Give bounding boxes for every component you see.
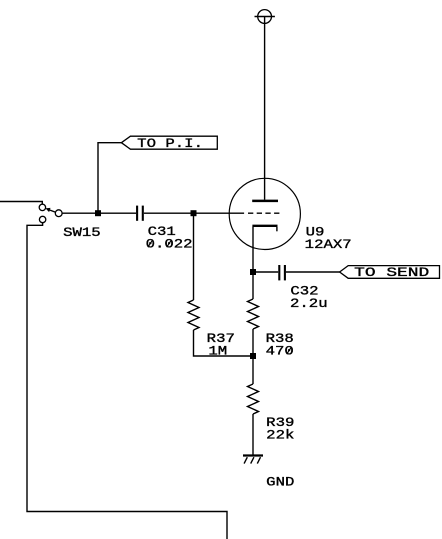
switch SW15 contact b (bottom) [39,216,45,222]
wire node A to C32 [253,271,278,273]
terminal (plate supply) crossbar [255,16,275,18]
wire terminal to tube plate [264,17,266,200]
svg-text:1M: 1M [208,344,227,359]
svg-text:2.2u: 2.2u [290,296,328,311]
capacitor C31 plate left [136,206,138,221]
junction J1 [95,210,101,216]
resistor R38 [248,299,259,329]
slashed zero of 0.022 (2nd) [167,240,172,247]
wire node J2 down to R37 [193,213,195,300]
wire cathode down to node A [252,227,254,272]
switch SW15 common pole c [55,210,62,217]
resistor R39 [248,384,259,414]
wire R37 to node J3 [194,330,254,356]
ground slash 3 [257,457,260,463]
resistor R37 [188,300,199,330]
wire switch contact b down-left-bottom rail [27,223,227,539]
capacitor C32 plate left [278,265,280,280]
ground bar [243,454,263,456]
junction J2 [191,210,197,216]
svg-text:22k: 22k [266,428,294,443]
wire switch pole to node J1 [62,212,98,214]
wire node J2 to tube grid [194,212,245,214]
capacitor C32 plate right [284,265,286,280]
svg-text:470: 470 [266,344,294,359]
switch SW15 blade arrowhead [45,208,50,212]
slashed zero of 470 [287,347,292,354]
triode U9 cathode hook [276,227,278,231]
switch SW15 blade [50,210,56,212]
svg-text:TO P.I.: TO P.I. [137,136,203,151]
junction J3 [250,353,256,359]
wire node J3 down to R39 [252,356,254,384]
terminal (plate supply) circle [258,10,272,24]
ground slash 2 [251,457,254,463]
svg-text:SW15: SW15 [63,225,101,240]
wire node J1 riser to TO P.I. tag [98,143,121,214]
slashed zero of 0.022 (1st) [148,240,153,247]
svg-text:GND: GND [266,474,294,489]
junction A [250,269,256,275]
wire C31 to node J2 [144,212,194,214]
switch SW15 contact a (top) [39,204,45,210]
triode U9 grid (dashed) [248,212,279,214]
triode U9 envelope [229,178,300,249]
wire R38 to node J3 [252,329,254,356]
wire C32 to TO SEND tag [286,271,340,273]
triode U9 cathode bar [252,225,277,227]
ground slash 1 [244,457,247,463]
wire R39 to ground [252,414,254,456]
net tag TO P.I. [121,136,217,149]
triode U9 plate bar [252,200,278,203]
wire node J1 to C31 [98,212,136,214]
wire left-edge input to switch pole [0,202,42,205]
net tag TO SEND [340,266,440,279]
svg-text:12AX7: 12AX7 [305,237,352,252]
capacitor C31 plate right [142,206,144,221]
wire node A down to R38 [252,272,254,299]
svg-text:TO SEND: TO SEND [354,265,429,280]
